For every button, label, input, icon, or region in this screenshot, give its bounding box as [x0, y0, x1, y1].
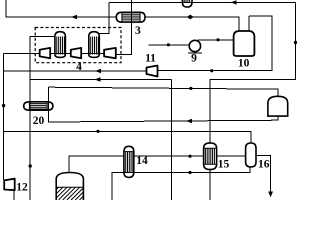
svg-text:20: 20 — [33, 115, 45, 127]
compressor 12 — [4, 179, 15, 191]
wire E2 top riser — [97, 2, 109, 33]
wire top-left riser to exchanger 3 left port — [6, 0, 116, 17]
svg-text:12: 12 — [16, 182, 28, 194]
wire vessel 16 right outlet with down arrow — [256, 156, 271, 194]
arrow left on vessel 17 outlet line — [186, 119, 192, 123]
heat exchanger 14 — [124, 146, 134, 177]
vessel 16 — [246, 143, 256, 167]
svg-text:9: 9 — [191, 53, 197, 65]
wire L2 from V3 to V7 drop — [30, 79, 171, 81]
wire compressor train line T1-E1-T2-E2-T3 — [50, 52, 104, 54]
junction dot on pump inlet — [167, 43, 170, 46]
wire vessel 13 riser to upper tube line — [69, 156, 246, 173]
wire E1 top link from V3 — [30, 36, 56, 53]
svg-text:16: 16 — [258, 159, 270, 171]
vessel 10 — [234, 31, 255, 56]
wire T3 outlet to exchanger 3 riser — [116, 0, 132, 55]
heat exchanger 3 — [116, 12, 145, 22]
arrow down at outlet end — [268, 192, 273, 198]
wire pass-through exchanger 3 vertical — [131, 12, 133, 22]
intercooler E1 — [55, 32, 66, 58]
wire pump 9 outlet to vessel 10 left side — [197, 39, 233, 41]
wire left vertical V2 — [3, 54, 5, 180]
vessel 17 — [268, 96, 288, 116]
compressor T2 — [71, 48, 81, 58]
compressor T1 — [40, 48, 51, 58]
arrow left on L2 — [95, 77, 101, 81]
heat exchanger 15 — [204, 143, 217, 170]
junction dot on right edge drop — [294, 41, 297, 44]
compressor T3 — [104, 48, 116, 58]
junction dot on line 11 right — [210, 69, 213, 72]
wire pump 9 inlet — [148, 44, 189, 46]
vessel 13 — [56, 173, 83, 201]
wire lower tube line y172.5 — [112, 167, 250, 200]
junction dot on line y131 — [96, 130, 99, 133]
wire exchanger 20 right vertical V4 — [49, 87, 278, 122]
dashed box 4 — [35, 28, 121, 63]
wire compressor 12 outlet down — [13, 190, 15, 200]
junction dot on shell line y88 — [189, 87, 192, 90]
svg-text:14: 14 — [136, 155, 148, 167]
arrow left on line 11 left — [95, 69, 101, 73]
arrow diamond on exchanger 3 right line — [187, 15, 194, 20]
wire left vertical V3 through exchanger 20 to bottom — [29, 54, 31, 200]
wire compressor feed line — [4, 53, 40, 55]
wire pass-through exchanger 20 verticals — [30, 102, 49, 110]
wire line 11 right part to vessel 10 riser — [158, 16, 273, 71]
svg-text:10: 10 — [238, 58, 250, 70]
svg-text:15: 15 — [218, 159, 230, 171]
expander 11 — [147, 66, 158, 77]
junction dot on pump outlet — [216, 38, 219, 41]
wire pass-through intercooler E1 E2 train line — [55, 52, 99, 54]
arrow left on top line — [231, 0, 237, 4]
wire shell line y88 from exchanger 20 to vessel 17 top — [49, 87, 278, 97]
junction dot on upper tube line — [188, 155, 191, 158]
junction dot on V3 — [29, 164, 32, 167]
junction dot on V2 — [2, 104, 5, 107]
wire vessel 10 right stub — [248, 16, 250, 32]
wire exchanger 15 bottom drop — [209, 170, 211, 200]
wire pass-through mini exchanger top line — [182, 1, 192, 3]
svg-text:11: 11 — [145, 53, 156, 65]
intercooler E2 — [89, 32, 100, 58]
mini exchanger at top edge — [182, 0, 192, 7]
arrow left on top-left wire — [71, 15, 77, 19]
wire V7 long vertical to bottom — [171, 80, 173, 201]
heat exchanger 20 — [24, 102, 53, 110]
wire right edge drop — [210, 2, 296, 143]
wire exchanger 3 right port to vessel 10 — [145, 17, 239, 32]
wire top line from E2 riser to right edge — [109, 1, 296, 3]
junction dot on lower tube line — [188, 171, 191, 174]
svg-text:4: 4 — [76, 61, 82, 73]
pump 9 — [188, 40, 202, 53]
svg-text:3: 3 — [135, 25, 141, 37]
wire line 11 left part — [4, 70, 147, 72]
wire long line y131 to vessel 16 top — [4, 131, 251, 143]
